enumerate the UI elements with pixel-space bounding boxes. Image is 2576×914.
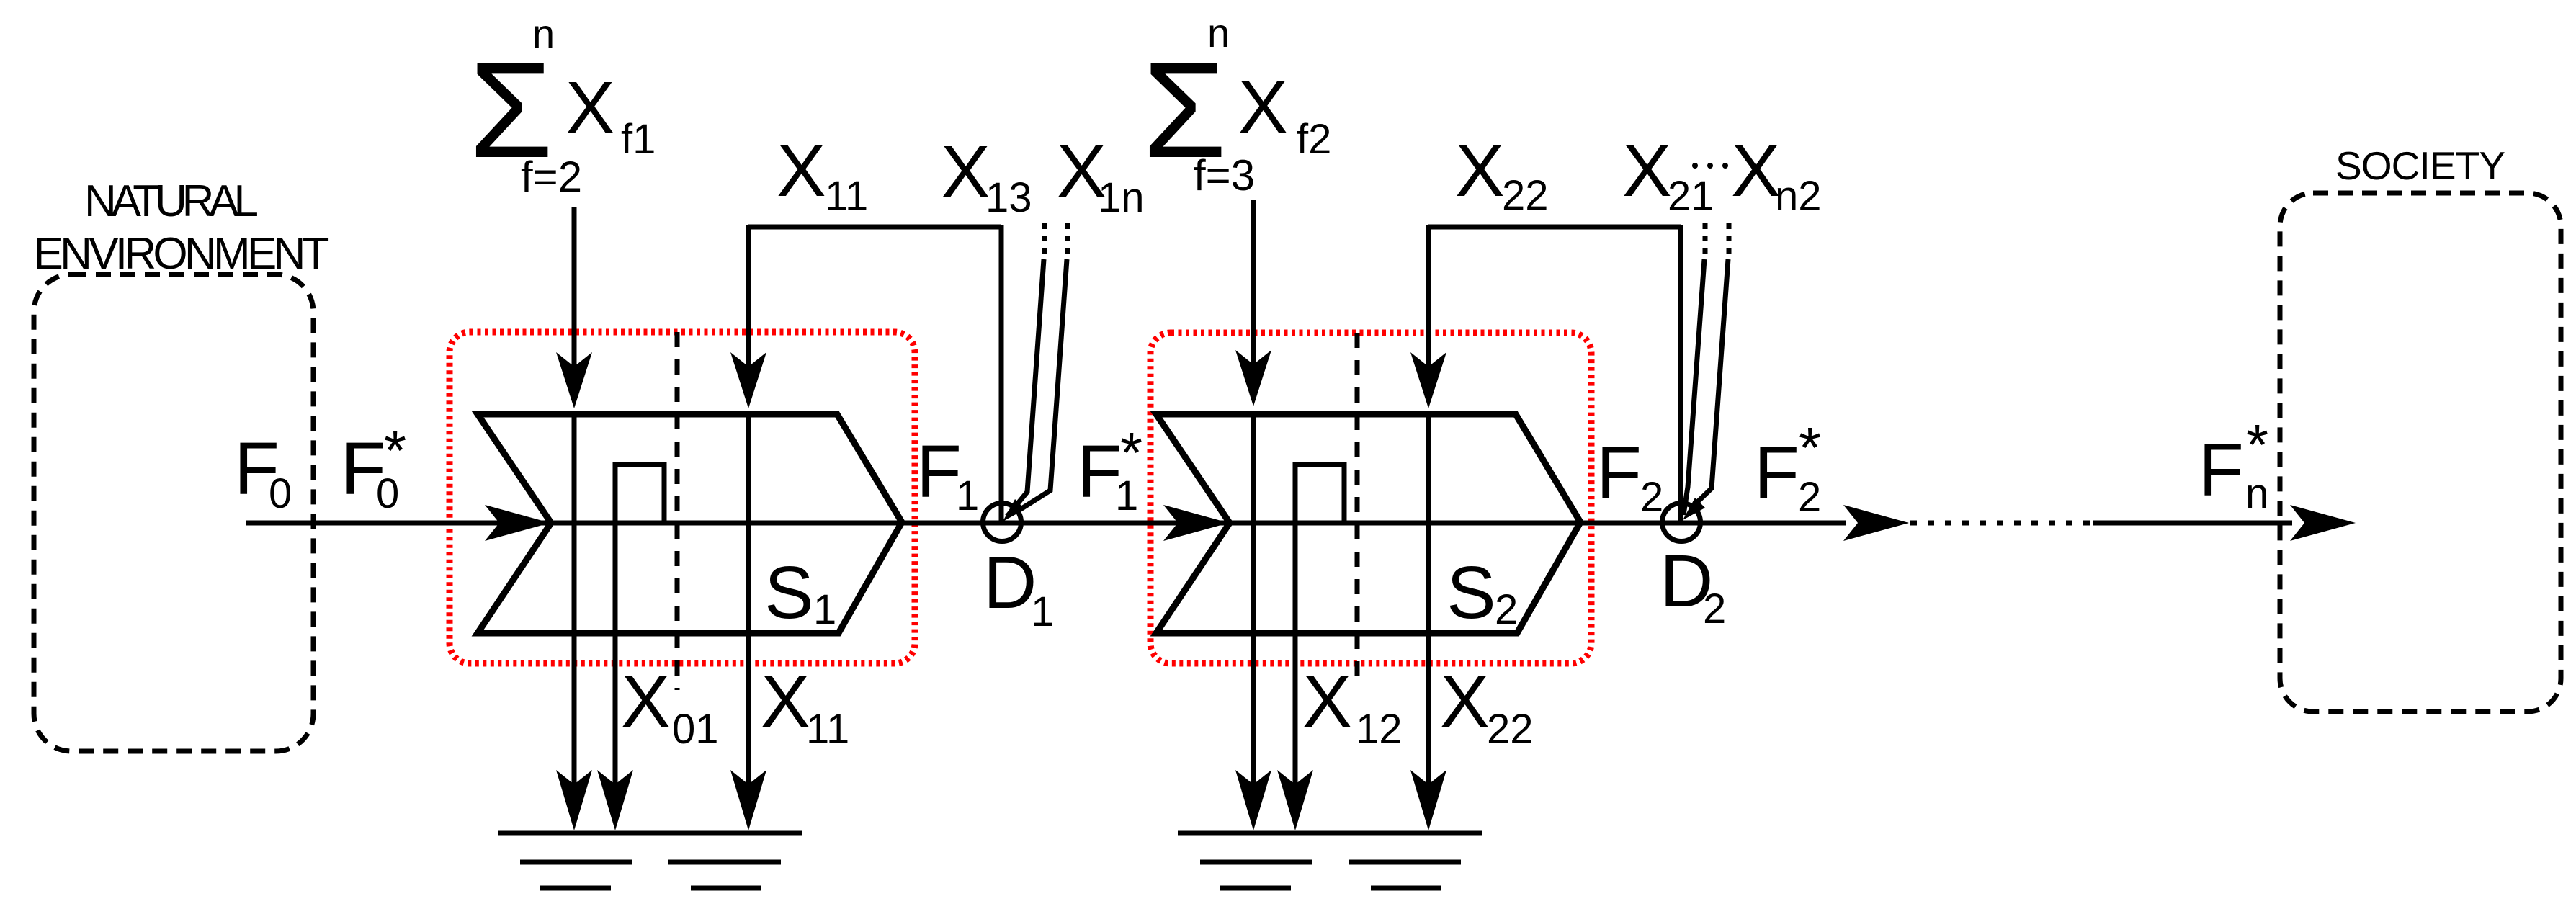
svg-text:2: 2 <box>1640 474 1663 521</box>
svg-text:1n: 1n <box>1098 174 1145 221</box>
svg-text:12: 12 <box>1356 706 1403 753</box>
svg-text:*: * <box>1799 416 1821 480</box>
svg-text:22: 22 <box>1502 172 1549 219</box>
svg-text:f2: f2 <box>1297 116 1331 163</box>
svg-text:F: F <box>1754 431 1799 514</box>
svg-text:D: D <box>983 541 1037 624</box>
svg-text:X: X <box>565 66 615 149</box>
svg-text:X: X <box>1622 129 1672 212</box>
svg-text:X: X <box>1455 129 1505 212</box>
svg-text:2: 2 <box>1798 474 1821 521</box>
svg-text:*: * <box>2246 413 2268 477</box>
svg-text:F: F <box>2199 429 2244 511</box>
svg-text:1: 1 <box>956 472 979 519</box>
svg-text:X: X <box>1238 66 1288 148</box>
svg-text:X: X <box>761 660 810 743</box>
svg-text:01: 01 <box>672 706 719 753</box>
svg-text:S: S <box>1446 551 1496 634</box>
svg-text:2: 2 <box>1495 586 1518 633</box>
svg-text:22: 22 <box>1487 706 1534 753</box>
svg-text:21: 21 <box>1668 173 1714 220</box>
svg-text:0: 0 <box>376 470 399 517</box>
svg-text:F: F <box>916 430 962 513</box>
svg-text:n2: n2 <box>1775 173 1822 220</box>
svg-text:SOCIETY: SOCIETY <box>2335 143 2505 188</box>
svg-text:13: 13 <box>985 174 1032 221</box>
svg-text:n: n <box>532 11 555 56</box>
svg-text:X: X <box>1731 129 1781 212</box>
svg-text:0: 0 <box>269 470 292 517</box>
svg-text:f1: f1 <box>621 116 656 163</box>
svg-text:X: X <box>941 130 990 213</box>
svg-text:X: X <box>621 660 671 743</box>
svg-text:n: n <box>2245 470 2268 517</box>
svg-text:2: 2 <box>1703 586 1726 632</box>
svg-text:F: F <box>1596 431 1642 514</box>
svg-text:f=3: f=3 <box>1194 151 1255 200</box>
svg-text:X: X <box>777 129 826 212</box>
svg-text:11: 11 <box>806 706 849 753</box>
svg-text:1: 1 <box>813 586 836 633</box>
svg-text:1: 1 <box>1031 588 1054 635</box>
svg-text:11: 11 <box>825 173 868 220</box>
svg-text:1: 1 <box>1115 472 1138 519</box>
svg-text:S: S <box>764 551 814 634</box>
svg-text:f=2: f=2 <box>521 153 582 201</box>
svg-text:X: X <box>1302 660 1352 743</box>
svg-text:NATURAL: NATURAL <box>84 176 259 226</box>
svg-text:X: X <box>1440 660 1490 743</box>
svg-text:n: n <box>1207 10 1230 55</box>
svg-text:ENVIRONMENT: ENVIRONMENT <box>34 229 330 279</box>
